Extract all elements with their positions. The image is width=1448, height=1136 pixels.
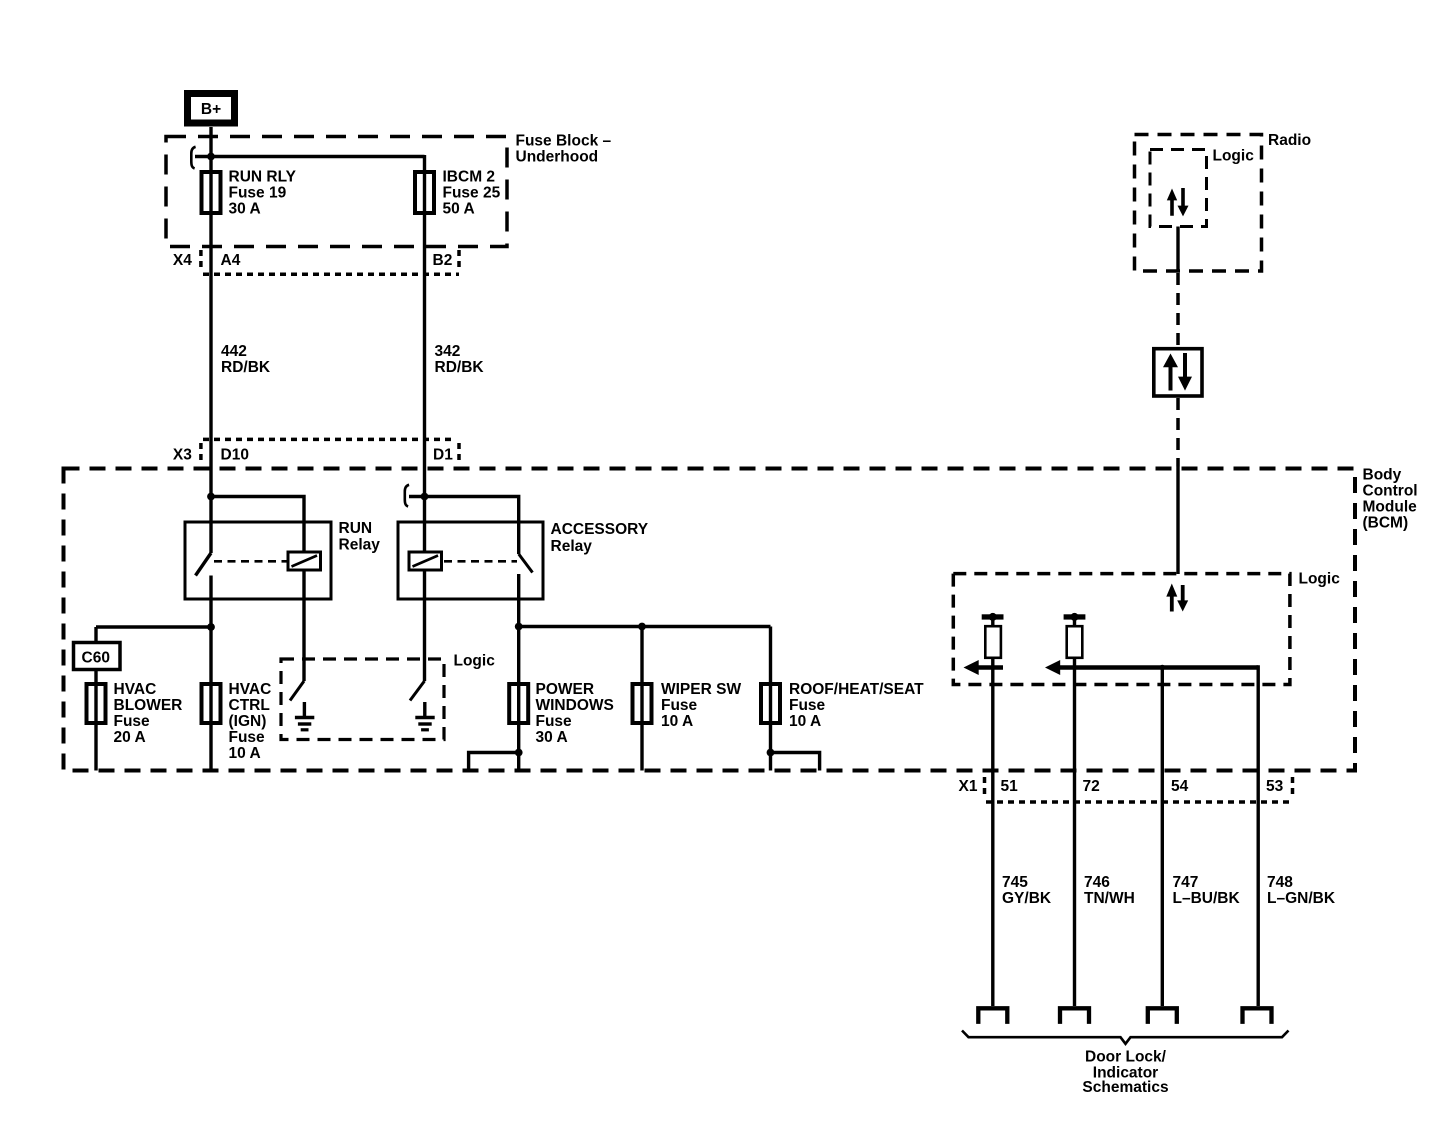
Logic dashed box (relay drivers) <box>281 659 444 740</box>
svg-text:30 A: 30 A <box>536 729 568 746</box>
svg-text:GY/BK: GY/BK <box>1002 890 1052 907</box>
radio Logic dashed box <box>1150 150 1207 227</box>
svg-text:Logic: Logic <box>1213 148 1255 165</box>
terminal pin 53 <box>1243 1008 1272 1024</box>
svg-text:B2: B2 <box>433 252 453 269</box>
svg-text:54: 54 <box>1171 778 1189 795</box>
svg-text:TN/WH: TN/WH <box>1084 890 1135 907</box>
svg-text:WIPER SW: WIPER SW <box>661 681 741 698</box>
terminal pin 72 <box>1060 1008 1089 1024</box>
logic switch 2 blade <box>410 681 425 701</box>
svg-text:10 A: 10 A <box>789 713 821 730</box>
svg-text:30 A: 30 A <box>229 201 261 218</box>
svg-text:IBCM 2: IBCM 2 <box>443 169 496 186</box>
svg-text:(IGN): (IGN) <box>229 713 267 730</box>
svg-text:RUN: RUN <box>339 520 373 537</box>
svg-text:POWER: POWER <box>536 681 595 698</box>
svg-text:L–GN/BK: L–GN/BK <box>1267 890 1336 907</box>
svg-text:Fuse: Fuse <box>114 713 151 730</box>
fuse WIPER SW 10A <box>633 684 652 723</box>
svg-text:ROOF/HEAT/SEAT: ROOF/HEAT/SEAT <box>789 681 924 698</box>
node junction accessory output bus <box>515 623 523 631</box>
svg-text:53: 53 <box>1266 778 1284 795</box>
wire run relay coil to logic switch <box>302 570 305 681</box>
svg-text:50 A: 50 A <box>443 201 475 218</box>
svg-text:20 A: 20 A <box>114 729 146 746</box>
terminal pin 51 <box>978 1008 1007 1024</box>
wire pin 54 <box>1161 668 1164 1007</box>
dashed data wire radio to translator <box>1176 273 1180 347</box>
run relay coil <box>288 552 321 570</box>
dashed data wire translator to BCM <box>1176 398 1180 467</box>
svg-text:Logic: Logic <box>1299 571 1341 588</box>
fuse IBCM 2 Fuse 25 50A <box>415 172 434 213</box>
wire radio logic to radio edge <box>1176 227 1179 272</box>
accessory relay coil <box>409 552 442 570</box>
ground for logic switch 2 <box>423 702 426 718</box>
run relay actuation dashed link <box>214 560 288 563</box>
node junction run relay feed <box>207 493 215 501</box>
relay ACCESSORY Relay box <box>398 522 543 599</box>
fuse POWER WINDOWS 30A <box>509 684 528 723</box>
wire to run relay coil <box>211 497 304 553</box>
wire B+ to RUN RLY fuse and relay (442 circuit) <box>209 127 212 553</box>
svg-text:442: 442 <box>221 343 247 360</box>
wire power windows jog <box>469 753 519 771</box>
svg-text:Fuse: Fuse <box>536 713 573 730</box>
Fuse Block - Underhood dashed box <box>166 137 507 247</box>
svg-text:Body: Body <box>1363 467 1402 484</box>
svg-text:Door Lock/: Door Lock/ <box>1085 1049 1167 1066</box>
svg-text:Fuse 19: Fuse 19 <box>229 185 287 202</box>
wire into BCM logic <box>1176 467 1179 575</box>
svg-text:RUN RLY: RUN RLY <box>229 169 297 186</box>
ground for logic switch 1 <box>303 702 306 718</box>
node junction roof jog <box>767 749 775 757</box>
accessory relay switch blade <box>519 554 533 573</box>
BCM Logic dashed box <box>953 574 1290 685</box>
BCM logic data arrows <box>1166 584 1188 612</box>
svg-text:ACCESSORY: ACCESSORY <box>551 521 649 538</box>
fuse ROOF/HEAT/SEAT 10A <box>761 684 780 723</box>
svg-text:Module: Module <box>1363 499 1418 516</box>
svg-text:L–BU/BK: L–BU/BK <box>1173 890 1241 907</box>
fuse RUN RLY Fuse 19 30A <box>202 172 221 213</box>
svg-text:HVAC: HVAC <box>229 681 272 698</box>
svg-text:Schematics: Schematics <box>1082 1079 1168 1096</box>
wire accessory switch output <box>517 574 520 771</box>
svg-text:Logic: Logic <box>454 653 496 670</box>
node junction pin 54 <box>1160 665 1166 671</box>
svg-text:D1: D1 <box>433 447 453 464</box>
node junction wiper tap <box>638 623 646 631</box>
svg-text:A4: A4 <box>221 252 241 269</box>
accessory relay actuation dashed link <box>444 560 517 563</box>
svg-text:WINDOWS: WINDOWS <box>536 697 614 714</box>
svg-text:746: 746 <box>1084 874 1110 891</box>
svg-text:10 A: 10 A <box>229 745 261 762</box>
svg-text:C60: C60 <box>82 650 110 667</box>
svg-text:X3: X3 <box>173 447 192 464</box>
svg-text:Underhood: Underhood <box>516 149 599 166</box>
wire pin 53 <box>1256 665 1259 1006</box>
run relay switch blade <box>196 553 212 576</box>
svg-text:Fuse: Fuse <box>661 697 698 714</box>
Body Control Module (BCM) dashed box <box>64 469 1356 771</box>
fuse HVAC CTRL (IGN) 10A <box>202 684 221 723</box>
svg-text:B+: B+ <box>201 101 221 118</box>
node junction power windows jog <box>515 749 523 757</box>
wire roof jog <box>771 753 820 771</box>
svg-text:Relay: Relay <box>551 538 593 555</box>
terminal pin 54 <box>1148 1008 1177 1024</box>
svg-text:Relay: Relay <box>339 537 381 554</box>
svg-text:342: 342 <box>435 343 461 360</box>
driver output 1 (pin 51) <box>964 613 1004 1006</box>
node junction at B+ branch <box>207 153 215 161</box>
svg-text:RD/BK: RD/BK <box>435 359 485 376</box>
svg-text:Control: Control <box>1363 483 1418 500</box>
svg-text:747: 747 <box>1173 874 1199 891</box>
brace door lock group <box>962 1031 1289 1044</box>
svg-text:72: 72 <box>1083 778 1100 795</box>
connector X3 band <box>203 438 456 442</box>
wire wiper sw fuse <box>640 627 643 771</box>
Radio dashed box <box>1135 135 1262 272</box>
svg-text:X4: X4 <box>173 252 192 269</box>
svg-text:748: 748 <box>1267 874 1293 891</box>
wire branch to IBCM 2 fuse <box>195 155 425 158</box>
battery B+ <box>188 94 235 124</box>
wire roof/heat/seat fuse <box>769 627 772 771</box>
svg-text:(BCM): (BCM) <box>1363 515 1409 532</box>
wire IBCM 2 fuse down to accessory coil (342 circuit) <box>423 155 426 552</box>
connector X4 band <box>199 250 203 268</box>
node junction accessory feed <box>421 493 429 501</box>
wire hop symbol at B+ branch <box>191 147 195 169</box>
wire C60 to HVAC blower fuse <box>94 627 97 771</box>
svg-text:51: 51 <box>1001 778 1019 795</box>
node junction HVAC branch <box>207 623 215 631</box>
svg-text:CTRL: CTRL <box>229 697 270 714</box>
svg-text:X1: X1 <box>959 778 978 795</box>
driver output 2 (pin 72) <box>1064 613 1086 1006</box>
svg-text:Fuse Block –: Fuse Block – <box>516 133 612 150</box>
logic switch 1 blade <box>290 681 304 701</box>
svg-text:D10: D10 <box>221 447 249 464</box>
wire branch to C60 <box>96 625 211 628</box>
fuse HVAC BLOWER 20A <box>87 684 106 723</box>
svg-text:Radio: Radio <box>1268 132 1311 149</box>
svg-text:Fuse: Fuse <box>789 697 826 714</box>
wire door lock bus (pins 53/54) <box>1052 665 1258 669</box>
svg-text:Fuse: Fuse <box>229 729 266 746</box>
wire hop symbol at accessory branch <box>405 485 409 507</box>
wire to accessory switch <box>409 497 519 555</box>
wire run relay switch output <box>209 576 212 771</box>
wire accessory coil to logic switch <box>423 570 426 681</box>
wire accessory bus <box>519 625 771 628</box>
serial data translator box <box>1154 349 1202 396</box>
svg-text:Fuse 25: Fuse 25 <box>443 185 501 202</box>
relay RUN Relay box <box>185 522 331 599</box>
radio data arrows <box>1167 188 1189 216</box>
svg-text:HVAC: HVAC <box>114 681 157 698</box>
connector C60 <box>74 643 121 670</box>
svg-text:745: 745 <box>1002 874 1028 891</box>
svg-text:10 A: 10 A <box>661 713 693 730</box>
svg-text:RD/BK: RD/BK <box>221 359 271 376</box>
svg-text:BLOWER: BLOWER <box>114 697 183 714</box>
